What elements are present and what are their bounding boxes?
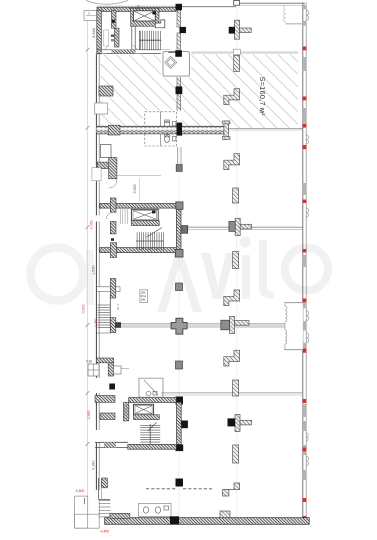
core3 right wall <box>177 402 182 444</box>
door dot <box>111 238 114 241</box>
column black c3 over room1 <box>175 50 182 57</box>
white column on top wall <box>234 1 240 6</box>
room line y175.5 <box>117 175 161 177</box>
core1 L wall right of elevator <box>155 20 165 28</box>
Z column z2 <box>224 154 240 170</box>
column black c8 <box>176 397 184 405</box>
column grey c6 <box>176 165 182 172</box>
vertical wall x179 seg2 <box>177 33 181 50</box>
Z column z3 <box>224 290 240 306</box>
dim ticks on x87.5 line <box>86 48 90 446</box>
door swing room3 <box>144 380 158 395</box>
core2 bottom plus <box>110 243 116 258</box>
braid end I-column <box>224 121 229 139</box>
core3 wall below elevator <box>134 415 160 420</box>
column grey g8 <box>228 418 236 426</box>
wall piece w2 <box>233 188 239 203</box>
core3 top wall <box>129 398 177 403</box>
room1 door marks <box>168 51 175 53</box>
watermark letter i <box>242 255 250 299</box>
column black c9 <box>180 421 188 429</box>
watermark letter A <box>157 252 202 312</box>
small box y363 <box>88 364 99 376</box>
core2 left wall piece <box>110 222 116 234</box>
vertical wall x179 seg1 <box>177 10 181 27</box>
svg-text:1: 1 <box>88 12 90 16</box>
core1 interior wall a <box>112 10 117 28</box>
tiny ticks left wall top <box>111 35 114 37</box>
black square near stair <box>115 322 121 328</box>
svg-text:-0,450: -0,450 <box>87 410 91 420</box>
canopy arc top-left <box>86 1 128 5</box>
core2 mid wall <box>131 221 159 226</box>
top wall thin lines to the right <box>176 6 236 8</box>
column black c3 <box>175 50 182 57</box>
left bottom corner wall <box>97 478 99 499</box>
left wall lower piers <box>95 396 115 403</box>
braid wall hatched left block <box>108 125 120 135</box>
svg-text:1,530: 1,530 <box>92 265 96 275</box>
column grey g2 <box>175 249 183 257</box>
column grid line vertical x=179 <box>178 7 180 517</box>
big plus column <box>171 318 187 334</box>
right wall red marks <box>302 47 306 520</box>
wall piece w5 <box>233 445 239 463</box>
top right vestibule <box>286 23 304 25</box>
black square y386 <box>109 384 115 390</box>
wall piece w4 <box>233 380 239 396</box>
column grid line vertical x=236.8 <box>236 5 238 517</box>
T column t1 vertical bar <box>235 20 240 39</box>
door dark dot core1 <box>112 20 115 23</box>
column black c5 <box>177 123 183 136</box>
bay window mid right <box>284 302 303 350</box>
WC toilet lower <box>164 136 169 143</box>
core2 stairs <box>136 228 164 251</box>
column black c5 over braid <box>177 123 183 136</box>
watermark letter a stem <box>86 250 94 305</box>
room area label 159,00 <box>140 290 148 303</box>
column grey g6 <box>176 361 183 369</box>
room1 white cutout <box>161 50 192 78</box>
elevator1 enclosure <box>131 8 159 26</box>
watermark letter v <box>201 253 235 299</box>
column black c1 <box>176 4 183 10</box>
column grey g3 <box>181 226 188 234</box>
svg-text:-0,450: -0,450 <box>100 530 110 534</box>
left wall niche y103 <box>95 103 108 114</box>
leader label box <box>84 11 100 21</box>
watermark letter o <box>285 248 328 291</box>
left wall pier white y144 <box>101 145 112 158</box>
T column t2 <box>235 218 240 235</box>
core1 mid wall <box>131 26 133 50</box>
column grey g7 <box>229 221 235 231</box>
wall piece w3 <box>233 252 239 269</box>
T column t3 <box>235 415 240 432</box>
elevator1 door mark <box>152 11 156 14</box>
left exterior wall double line <box>95 54 97 490</box>
watermark letter t <box>259 240 274 299</box>
column grey g1 <box>176 202 183 209</box>
Z column z5 <box>223 483 240 496</box>
wall piece w6 <box>220 511 230 519</box>
dim line x139 segment <box>139 178 141 201</box>
core1 bottom wall <box>97 49 170 51</box>
core2 top wall <box>100 204 177 209</box>
wall piece left of room3 <box>114 366 122 374</box>
hatched big area S=160,7 <box>101 55 299 129</box>
svg-text:4,180: 4,180 <box>92 460 96 470</box>
svg-text:2,4: 2,4 <box>137 5 141 10</box>
svg-text:-0,600: -0,600 <box>82 304 86 314</box>
left wall L-pier y358 <box>96 358 113 363</box>
core2 top plus <box>110 198 116 212</box>
column black c12 <box>170 516 179 524</box>
entry porch rects <box>75 496 88 528</box>
svg-text:-0,600: -0,600 <box>75 489 85 493</box>
left stair mid treads <box>98 294 111 334</box>
WC dashed room left <box>145 112 161 146</box>
column black c12 over wall <box>170 516 179 524</box>
Z column z4b <box>224 350 240 366</box>
left wall y442 wall <box>95 441 128 443</box>
column black c7 <box>229 27 235 34</box>
vertical wall x179 seg5 thin <box>177 136 179 166</box>
left wall hatch y162 <box>97 162 111 169</box>
dashed partition lines bottom <box>146 488 176 490</box>
corridor furniture marks core1 <box>104 30 109 46</box>
braid wall y130 <box>96 126 224 134</box>
watermark letter i dot <box>240 237 251 248</box>
column black c11 <box>176 479 184 487</box>
wall line y228 <box>183 226 303 228</box>
WC zone white cutout <box>143 111 182 148</box>
stair mid bottom line <box>97 332 111 334</box>
grey band top of hatched area <box>183 51 298 54</box>
dimension line vertical x=87.5 <box>87 21 89 498</box>
core1 left exterior wall <box>97 10 102 54</box>
wall piece w1 <box>234 55 240 71</box>
svg-text:-0,450: -0,450 <box>94 318 98 328</box>
left wall pier y86 <box>99 86 113 96</box>
bottom exterior wall <box>105 518 310 525</box>
core1 door swings <box>104 45 109 50</box>
right wall double line <box>302 3 304 524</box>
core2 door arc <box>107 214 111 220</box>
core1 stairs <box>140 31 162 50</box>
right wall outside bumps <box>306 10 309 465</box>
svg-text:-0,050: -0,050 <box>90 220 94 230</box>
corridor lines y369 <box>114 368 129 370</box>
svg-text:Ст-7: Ст-7 <box>116 303 120 310</box>
Z column z1 <box>224 89 240 105</box>
svg-text:148,: 148, <box>141 298 146 302</box>
entry arrow <box>83 498 85 505</box>
vertical wall x179 seg4 <box>177 94 181 123</box>
svg-text:S=160,7 м²: S=160,7 м² <box>258 77 267 117</box>
core3 stairs <box>140 422 160 444</box>
interior wall x112 y157-179 <box>109 158 117 179</box>
core2 bottom wall <box>100 248 177 253</box>
bottom wall left step <box>110 513 130 518</box>
core3 left text block <box>125 405 130 419</box>
window outer y168-181 <box>92 168 101 181</box>
T column t1 horizontal bar <box>240 28 252 33</box>
core3 bottom wall <box>128 444 177 449</box>
core2 right wall <box>176 208 181 249</box>
grey band wall y325 <box>121 323 285 327</box>
svg-text:3,540: 3,540 <box>91 27 96 38</box>
WC dashed room right <box>161 112 177 146</box>
room1 desk diamond <box>165 56 177 68</box>
column black c10 <box>176 444 184 451</box>
corridor wall y289 <box>97 287 120 292</box>
line y393 <box>161 392 303 394</box>
column black c4 <box>176 87 183 95</box>
core1 interior wall b <box>115 28 120 47</box>
column black c2 <box>180 27 187 33</box>
column grey g9 + bar <box>230 317 235 334</box>
svg-text:3,530: 3,530 <box>133 184 137 193</box>
elevator1 shaft <box>134 11 156 21</box>
door arc y179-188 <box>109 179 117 188</box>
thin line right of braid <box>229 127 304 129</box>
room3 fixtures <box>146 392 151 396</box>
elevator2 shaft <box>131 209 158 220</box>
room above core3 <box>139 378 163 397</box>
bottom WC fixtures <box>139 504 172 517</box>
elevator2 door mark <box>152 210 155 213</box>
left stair mid walls <box>110 279 115 299</box>
watermark letter a ring <box>31 248 84 301</box>
elevator3 shaft <box>134 404 154 415</box>
top exterior hatched wall <box>97 7 176 11</box>
svg-text:0,90: 0,90 <box>86 360 92 364</box>
core3 left wall <box>123 402 128 421</box>
svg-text:159,: 159, <box>141 290 146 294</box>
column grey g4 <box>176 283 183 291</box>
window gaps on left wall <box>96 215 100 221</box>
WC sinks <box>173 122 176 126</box>
room1 outline <box>163 52 189 77</box>
entry steps <box>99 499 110 518</box>
WC toilet upper <box>164 121 169 128</box>
core2 machine room text <box>121 209 128 224</box>
vertical wall x179 seg3 <box>177 57 181 87</box>
right wall grey piers <box>303 5 306 480</box>
svg-text:00 м: 00 м <box>141 294 147 298</box>
